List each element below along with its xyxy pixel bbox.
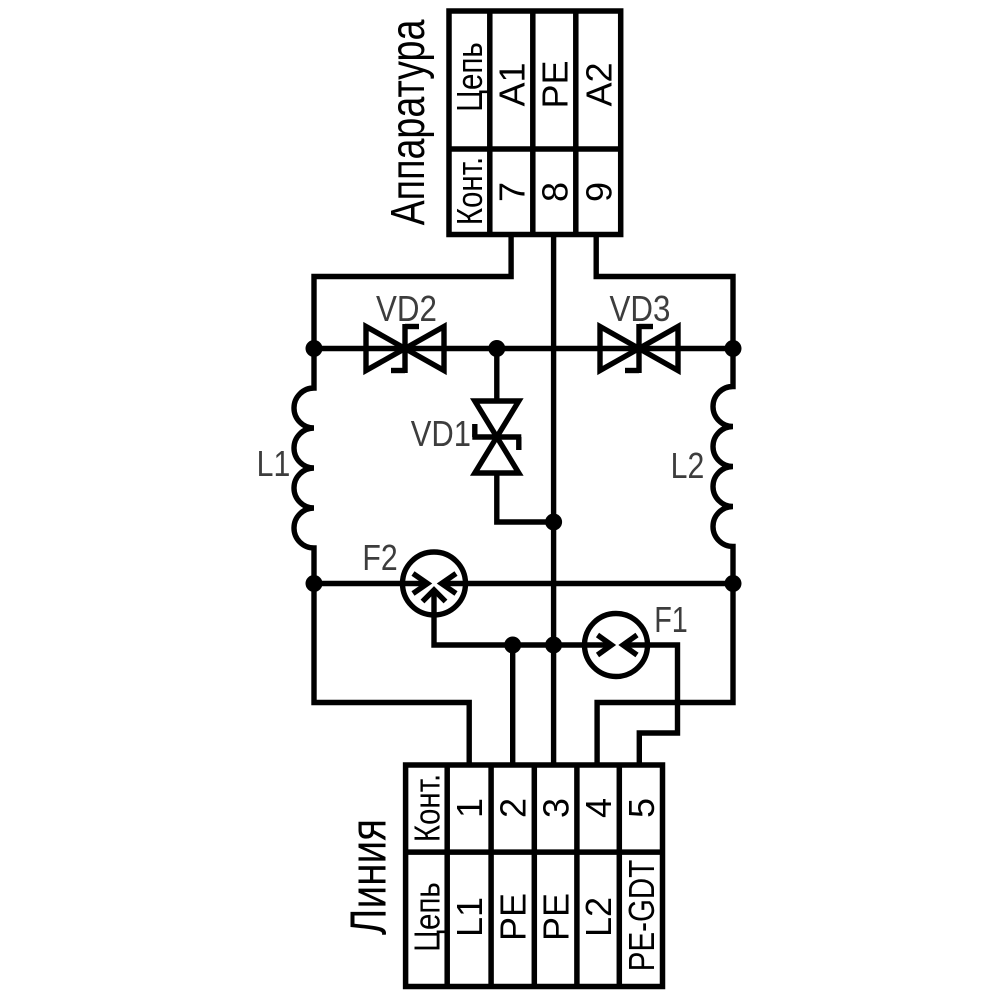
wire diode row horizontal [314, 346, 733, 351]
svg-text:PE: PE [534, 60, 575, 108]
svg-text:Цепь: Цепь [449, 42, 489, 112]
node dot VD1/PE [545, 514, 562, 531]
svg-text:9: 9 [578, 182, 619, 202]
node dot left diode row [306, 340, 323, 357]
svg-text:F1: F1 [654, 599, 688, 640]
svg-text:F2: F2 [362, 539, 397, 579]
svg-text:8: 8 [534, 182, 575, 202]
wire VD1 top lead [494, 349, 499, 403]
wire F1 right to pin5 [623, 645, 678, 765]
wire F2 row horizontal (left of F2 gap) [314, 581, 428, 586]
svg-text:PE-GDT: PE-GDT [621, 860, 661, 971]
svg-text:1: 1 [449, 798, 490, 818]
node dot right diode row [725, 340, 742, 357]
terminal block X2 "Линия" (bottom) [406, 765, 663, 987]
node dot F2 row right [725, 575, 742, 592]
svg-text:VD2: VD2 [376, 289, 437, 330]
wire VD1 bottom lead [497, 473, 554, 522]
svg-text:VD1: VD1 [411, 415, 471, 455]
svg-text:L1: L1 [257, 445, 291, 485]
svg-text:L1: L1 [449, 897, 490, 937]
svg-text:А2: А2 [578, 62, 619, 106]
node dot pin2 junction [504, 637, 521, 654]
inductor L1 [294, 349, 314, 584]
gas discharge tube F2 (3-electrode) [403, 552, 466, 615]
svg-text:2: 2 [493, 798, 534, 818]
wire from pin7 to left branch [314, 235, 511, 349]
svg-text:Цепь: Цепь [407, 882, 447, 952]
svg-text:PE: PE [493, 893, 534, 941]
TVS diode VD1 [472, 401, 521, 473]
TVS diode VD3 [600, 324, 678, 373]
svg-text:L2: L2 [671, 447, 705, 487]
inductor L2 [713, 349, 733, 584]
wire F2 bottom electrode [434, 615, 612, 645]
wire PE vertical (pin8 to pin3) [551, 235, 556, 766]
svg-text:Конт.: Конт. [407, 774, 447, 842]
wire left branch to pin1 [314, 584, 469, 766]
node dot PE junction [545, 637, 562, 654]
svg-text:Аппаратура: Аппаратура [382, 20, 435, 226]
svg-text:Конт.: Конт. [449, 157, 489, 225]
svg-text:VD3: VD3 [610, 289, 671, 330]
wire F2 row horizontal (right of F2 gap) [442, 581, 734, 586]
svg-text:3: 3 [536, 798, 577, 818]
terminal block X1 "Аппаратура" (top) [449, 11, 621, 235]
svg-text:L2: L2 [578, 897, 619, 937]
wire pin2 vertical [510, 645, 515, 765]
svg-text:7: 7 [491, 182, 532, 202]
wire right branch to pin4 [597, 584, 733, 766]
node dot F2 row left [306, 575, 323, 592]
node dot middle diode row [488, 340, 505, 357]
svg-text:Линия: Линия [339, 819, 397, 935]
TVS diode VD2 [366, 324, 444, 373]
svg-text:А1: А1 [491, 62, 532, 106]
gas discharge tube F1 (2-electrode) [585, 614, 648, 677]
svg-text:4: 4 [578, 798, 619, 818]
wire from pin9 to right branch [596, 235, 733, 349]
svg-text:PE: PE [536, 893, 577, 941]
svg-text:5: 5 [621, 798, 662, 818]
